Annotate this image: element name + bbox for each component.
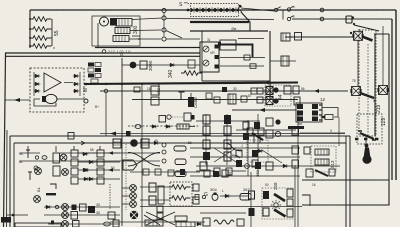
dashed mid vertical [367,44,369,136]
wire stubs top [28,146,100,152]
filter box 267 [240,194,251,201]
wire B19 diagonal [354,25,379,31]
wire thick L from K1 [219,45,253,58]
bottom mid box3 [176,222,195,227]
pin stub [218,42,221,46]
wire vertical x251 [250,172,252,227]
wire node C diagonal [166,31,182,39]
node ring J [162,150,166,154]
component x209 [206,93,212,99]
wire crossing X2 [144,212,175,225]
label S arrow [184,3,189,4]
diode D13 [282,164,289,167]
wire row2b [78,178,120,180]
resistor box 300K [140,61,147,69]
bottom frame stub [1,217,11,223]
connector block right [296,103,322,122]
relay K2 [113,139,121,148]
wire generator drop [97,23,99,48]
wire y91 [100,90,348,92]
wire vertical x106 [105,93,107,136]
diode D9 [88,160,95,163]
wire drop x268 [269,31,271,100]
wire y99 [132,99,298,101]
component col x160 [158,186,164,204]
bottom right big box [302,180,389,205]
bracket symbol [50,184,56,189]
wire left feed bus lower [6,55,200,57]
lamp L13 [62,221,69,228]
component x217 [214,97,220,103]
lamp L3 [35,168,42,175]
bottom box c1 [203,218,210,226]
wire frame left outer [4,53,6,227]
wire S4 drop [382,26,384,85]
dashed box mid cluster [247,140,268,162]
component c6 [247,128,264,140]
wire y133 [100,133,345,135]
wire row1b [78,161,120,163]
wire main bus y83 [84,83,298,85]
lamp column L10 [130,193,137,200]
wire S5 drop [357,40,359,86]
fuse box row [174,146,186,151]
choke box y125 [177,124,195,129]
wire y196 right [220,195,248,197]
dashed box 513 [311,146,336,172]
node circle left [34,166,38,170]
resistor R3 [30,36,51,41]
component stack s1 [157,206,163,219]
switch S6 lever [360,133,374,139]
relay K1 box [200,42,219,72]
wire lamp links [122,188,129,204]
right mid pin marks [298,124,302,127]
node ring D [162,37,166,41]
component m1 [241,96,247,102]
resistor bank vertical feed [29,10,31,48]
component box B19 [346,16,352,23]
wire second bus y19 [292,18,392,20]
component loop [320,115,333,120]
node ring y91 [104,89,108,93]
lamp L12 filled [130,211,138,219]
component Rh box [281,56,289,66]
component col x195 b [193,197,199,204]
arrow y134 [110,132,116,136]
lamp column L9 [130,185,137,192]
pin dots B19 [352,16,354,18]
lamp L2 [60,154,67,161]
wire y48 [95,47,200,49]
switch S2b [287,16,293,21]
wire motor loop [34,99,56,106]
wire row y172 [130,171,200,173]
wire y133 right [300,132,345,134]
wire node D to box [166,38,200,40]
switch S2a [287,6,293,11]
feed box lower [257,97,263,103]
label tags wires [90,27,356,193]
thick bar c5 [288,126,304,129]
node dot y215 [12,214,15,217]
resistor R4 [30,44,51,49]
node ring small [55,205,58,208]
switch stack contacts a [249,191,255,216]
component row y171 a [143,169,149,175]
resistor R5 [169,185,190,190]
lamp L5 filled [130,139,138,147]
component oval b7 [104,222,111,226]
diode D3 [34,89,41,92]
dashed box pins [355,138,378,141]
wire y215b [44,214,120,216]
relay NTC box upper [151,86,159,95]
lamp L7 [62,204,69,211]
bottom coil R7 [214,220,234,224]
terminal strip left [88,63,101,84]
component box row2 [53,166,60,176]
dashed enclosure right [359,30,376,136]
component box b1 [72,205,77,211]
relay stack A [266,87,273,105]
component m2 [251,88,257,94]
wire y207 [44,206,120,208]
wire left feed bus upper [5,52,200,54]
arrow inner top [81,141,85,145]
wire vertical x295 [294,165,296,227]
relay pair A4 [97,168,104,184]
wire thick stub y22 [190,21,249,23]
lever S3 [360,93,374,98]
wire third right vertical [374,34,389,205]
feed box upper [257,88,263,94]
component black pair [88,206,95,213]
wire right inner vertical [391,19,393,180]
wire row2a [78,169,120,171]
wire x339 drop [338,117,340,146]
wire relay right y66 [220,65,264,67]
wire y38 inner [238,38,264,40]
wire vertical x346 [345,136,347,227]
component box b6 [73,221,80,228]
relay column C1 [200,115,210,170]
contact dot A [273,87,278,92]
component small box y66 [250,64,256,69]
component right edge [294,97,300,105]
pin block right [220,40,236,50]
motor M1 [42,94,84,103]
wire relay right y57 [220,57,265,59]
lever thick b [274,210,286,217]
right column r3 [292,160,299,168]
horn wire [365,136,367,147]
wire connector to switch [241,8,274,11]
fuse box row3 [175,171,186,177]
wire opamp out [64,82,73,84]
resistor R1 [30,17,51,22]
node ring I [162,143,166,147]
bottom mid box2 [175,216,187,221]
wire dashed y125 [128,125,200,127]
dashed relay enclosure [265,85,291,106]
relay pair A2 [97,150,104,166]
component x181 [179,92,185,100]
arrow y91 [314,89,319,93]
wire row y153 [20,152,160,154]
switch block S3 [350,87,361,96]
relay box left edge [201,31,203,81]
wire vertical x350b [349,180,351,227]
bottom long box [15,223,61,227]
component grid c7 [236,150,258,167]
node ring C [162,28,166,32]
relay box bottom edge [202,80,270,82]
step rect [302,195,310,206]
wire crossing X1 [128,153,160,167]
wire row1a [78,152,120,154]
component col x152 a [149,183,156,192]
component mid x186 [184,113,195,121]
component on box edge [68,133,74,140]
component grid c4 [266,118,281,138]
wire verticals cluster [206,114,258,176]
wire bus y31 [190,30,268,32]
loop wire right [322,108,338,118]
lever S5 [362,37,373,41]
diode D12 [153,141,160,144]
relay K3 [141,139,149,148]
wire frame left inner [6,130,9,227]
wire frame to bridge [5,99,30,101]
diode D19 [83,177,90,180]
dashed feed x126 [125,144,127,210]
component c11 [196,168,246,175]
bottom box c2 [237,219,244,226]
component oval y126 [135,125,141,129]
lamp L4 [62,169,69,176]
component mid x166 [167,115,171,119]
fuse box row2 [175,159,186,165]
wire y138 right [160,135,345,137]
wire y200 [140,199,170,201]
right column r1 [292,127,299,135]
relay stack B [284,86,299,94]
horn B1 [363,144,371,163]
component box y37 [281,33,302,42]
diode D8 [82,152,89,155]
wire y213 right [200,212,246,214]
lamp L6 [34,196,41,203]
switch block S4 [377,86,388,95]
component col x152 b [149,196,156,205]
op-amp U1 [44,73,61,92]
dashed switch enclosure [262,188,293,219]
contact dot B [273,98,278,103]
node dot bus x188 [187,9,190,12]
component box b8 [113,220,119,227]
top cluster 557 [204,170,228,177]
node ring A [162,8,166,12]
dashed box horn switch [357,114,382,144]
transformer T1 [113,19,132,42]
component m3 [222,87,227,92]
component col x195 a [193,184,199,191]
diode D1 [34,74,41,77]
wire right outer vertical [395,10,397,180]
component grid c3 [243,122,260,143]
resistor R6 [169,196,190,201]
component row y171 b [155,169,161,175]
wire vertical x142 [141,84,143,227]
connector strip X1 [191,4,240,17]
wire bridge left rail [33,72,35,96]
component oval [42,156,47,160]
dashed feed column [109,184,111,210]
wire y187 [140,186,170,188]
diode D2 [34,82,41,85]
sensor oval [212,193,218,201]
diode D17 [224,194,231,197]
switch stack contacts b [263,191,269,216]
wire node column [163,13,165,37]
component sq y134 [126,131,131,136]
control unit dashed box [30,68,84,112]
wire y110 [232,109,296,111]
dense cluster mid rows [190,121,340,176]
wire dashed y117 [172,116,184,118]
diode mid x168 [165,125,172,128]
node ring K [162,159,166,163]
diode D6 [73,82,80,85]
wire y37 [285,36,353,38]
wire resistor bank right rail [51,19,53,46]
lamp L8 [62,212,69,219]
wire y61 to Rh [270,60,296,62]
diode D10 [82,168,89,171]
wire node B to switch [166,19,274,20]
coil box 513a [315,149,329,155]
component box x137 [134,87,140,92]
node ring B [162,16,166,20]
bottom mid long box [145,220,163,226]
wire left step [140,206,302,208]
wire switch link [282,10,284,20]
component c9 [304,147,310,154]
node ring F [320,17,324,21]
wire diagonals cluster [214,148,282,163]
motor unit box [92,16,140,46]
node dot top [239,5,241,7]
switch S6 contacts [358,131,376,140]
node ring G [84,99,88,103]
wire bridge right rail [79,72,81,96]
diode D18 [83,168,90,171]
component x231 [228,94,236,104]
capacitor C653 [188,93,194,107]
component box x188 [188,60,195,68]
diode D11 [88,177,95,180]
wire transformer to nodes [129,18,162,39]
wire y215 stub [6,214,28,216]
wire row y161 [20,160,160,162]
resistor R340 [181,71,202,76]
big box outer [10,136,350,227]
pointed oval connector [123,160,137,170]
lamp column L11 [130,201,137,208]
node dot S5 [350,32,352,34]
wire vertical x298 [297,110,299,227]
relay switch cluster x315 [306,169,335,177]
wire y222 [110,221,205,223]
wire row y143 [90,142,230,144]
wire diagonal drop [241,12,250,31]
component c10 [245,162,273,170]
component box b4 [108,212,115,219]
lever thick a [274,194,285,201]
diode D5 [169,63,176,66]
coil box 513b [315,159,329,165]
sun symbol [271,200,281,210]
node ring H [35,156,38,159]
node dots resistor bank [29,18,31,20]
wire top bus [30,9,396,11]
lamp L1 filled [130,62,137,69]
big box inner [14,143,346,227]
component mid x160 [159,116,166,123]
lamp stem row1 [26,150,30,158]
component small box y63 [244,55,250,60]
relay pair A1 [71,150,78,166]
component row y171 d [180,169,185,175]
relay NTC box lower [151,97,159,105]
component box g0 [195,195,199,200]
resistor R2 [30,27,51,32]
arrow y110 [259,108,265,112]
node dots bus y83 [105,81,270,85]
diode mid cluster [257,149,264,152]
node circle g1 [202,195,205,198]
diode D7 [73,89,80,92]
arrow frame wire [14,98,20,102]
relay pair A3 [71,168,78,184]
diode D20 [196,222,203,225]
component box row1 [53,153,60,163]
diode D4 [73,74,80,77]
node dot bus [85,83,88,86]
component stem [28,172,32,180]
wire vertical x122 [121,58,123,226]
component row y171 c [168,170,174,176]
diode mid y126 [151,125,158,128]
node junction arrow [238,6,242,12]
component box b2 [80,204,87,211]
generator G1 [100,17,118,26]
curve wire cluster [222,143,242,158]
wire y224 [48,223,120,225]
wire y65 left [122,64,200,66]
switch right column [287,189,293,217]
component pin [51,221,54,225]
right column r2 [292,146,299,154]
relay column C2 [224,115,231,161]
switch block S5 [352,31,363,40]
component box b3 [71,212,78,220]
node ring E [320,8,324,12]
diode D14 [45,205,52,208]
node ring bus53 [102,50,106,54]
thick bar [46,193,56,195]
